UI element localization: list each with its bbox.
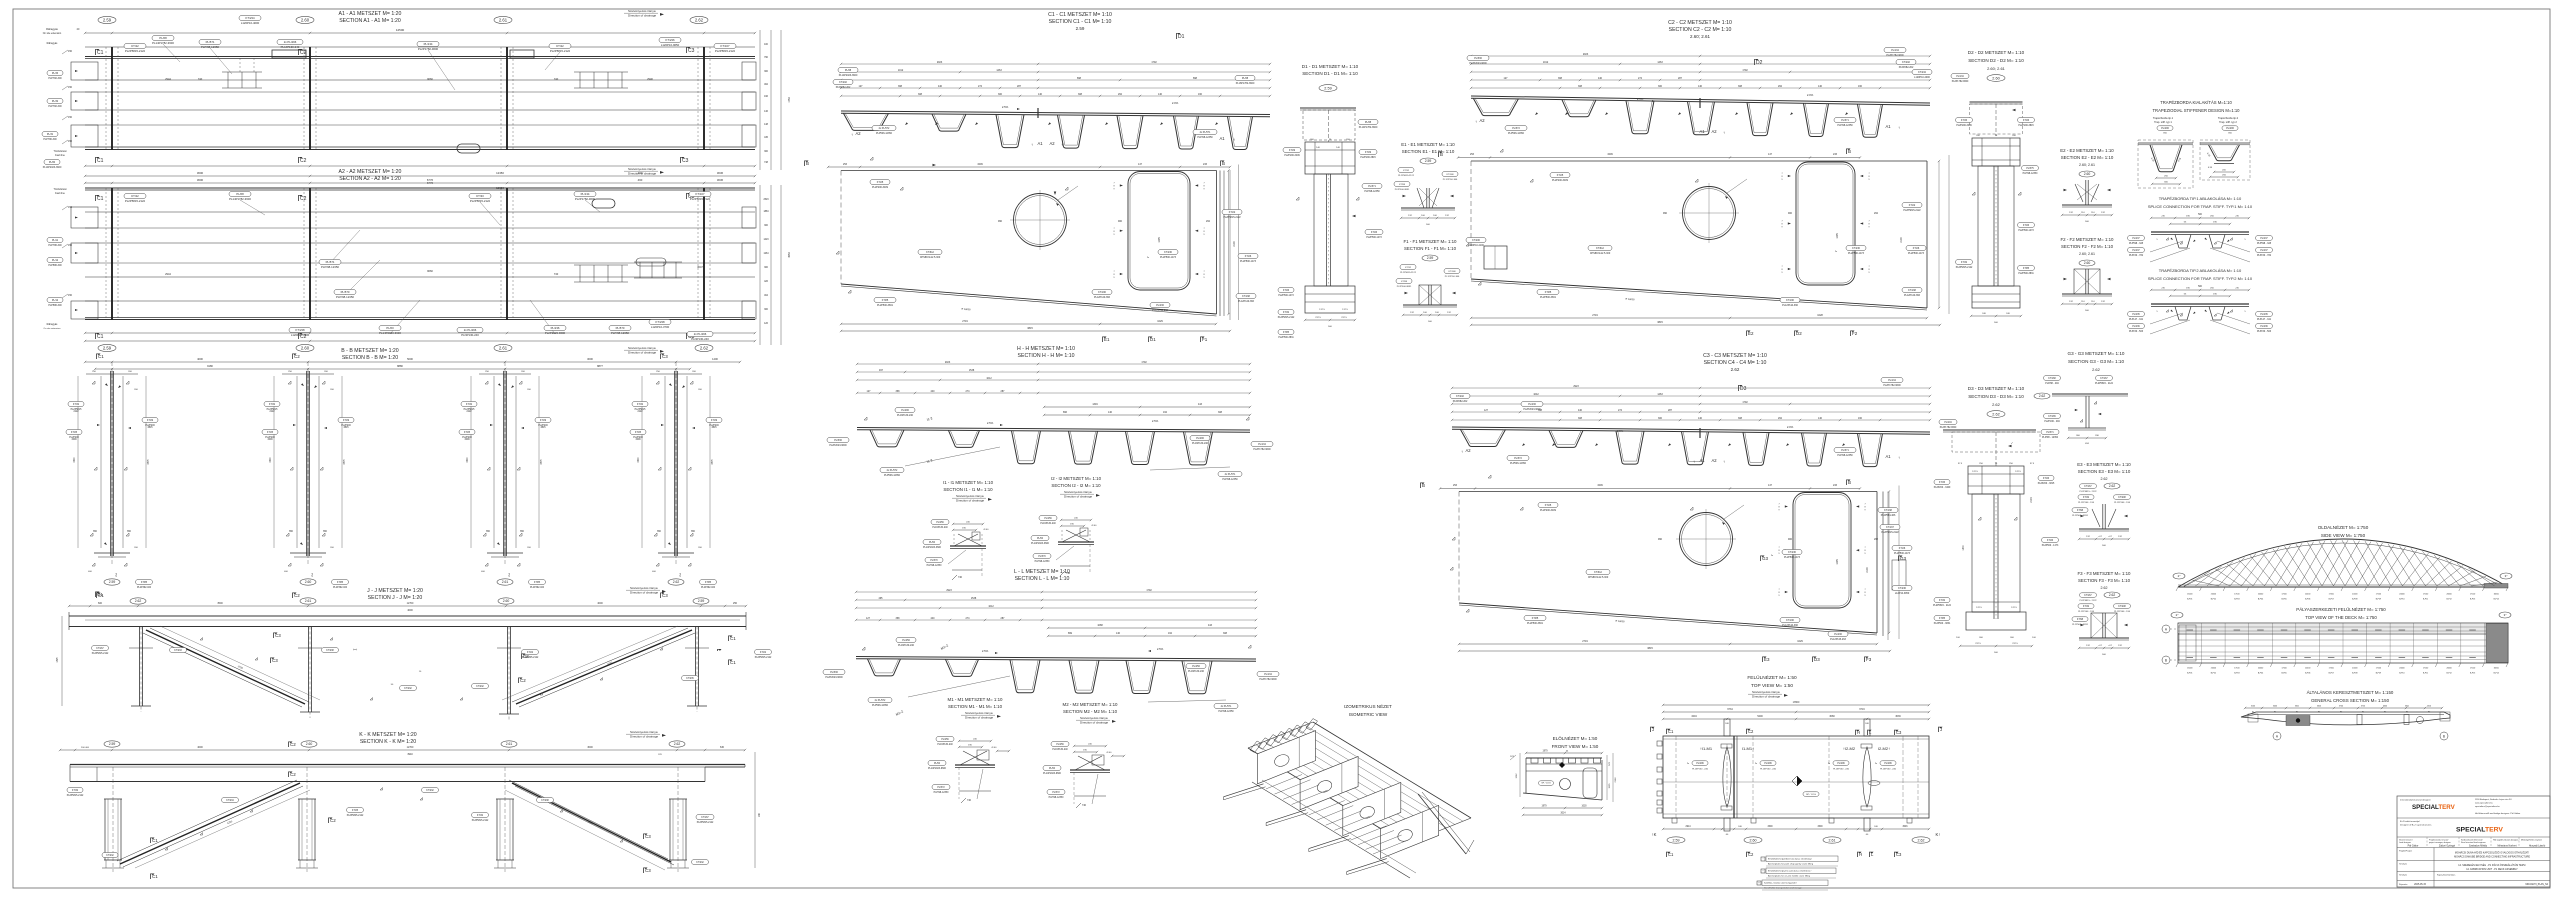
svg-text:B: B [2443,734,2445,738]
svg-text:2.0%: 2.0% [1172,101,1179,105]
svg-text:2923: 2923 [937,61,943,64]
svg-text:Híd segédmunkatárs designer /: Híd segédmunkatárs designer / [2493,839,2520,842]
svg-text:Szelvényezés iránya: Szelvényezés iránya [630,730,658,734]
svg-text:PL/536: PL/536 [830,671,838,674]
svg-text:17100: 17100 [2329,594,2334,596]
svg-text:3'': 3'' [2505,574,2508,578]
svg-text:2923: 2923 [1583,53,1589,56]
svg-text:127: 127 [1484,409,1489,412]
B-B column at x=505 [503,371,505,556]
svg-text:KT/33: KT/33 [476,194,484,198]
svg-text:A2: A2 [1711,129,1717,134]
svg-text:PL12P140-366: PL12P140-366 [1238,300,1255,303]
svg-text:KT/25: KT/25 [877,181,884,184]
svg-text:PLP506-12350: PLP506-12350 [1508,132,1525,135]
general cross section end details [2248,714,2258,722]
svg-text:PL2P500 - 1473: PL2P500 - 1473 [2042,545,2059,547]
svg-text:Trapézborda tip.2: Trapézborda tip.2 [2218,116,2239,120]
A2 leader lines [240,200,265,215]
svg-text:990: 990 [998,220,1003,223]
svg-text:4x PL/571: 4x PL/571 [1221,705,1232,708]
C3 right end details [1882,492,1884,637]
svg-text:SP / COG: SP / COG [1541,783,1551,785]
A1 right margin dimension column [759,30,761,170]
svg-text:PL/571: PL/571 [206,40,215,44]
svg-text:KT/234: KT/234 [1918,71,1926,74]
svg-text:2.60; 2.61: 2.60; 2.61 [2079,163,2095,167]
svg-text:17100: 17100 [2234,594,2239,596]
svg-text:B-P03: B-P03 [2234,599,2239,601]
svg-text:PL16P130 - 240: PL16P130 - 240 [1833,769,1850,771]
svg-text:3621: 3621 [2295,706,2299,708]
felulnezet main rectangle [1663,736,1929,818]
svg-text:368: 368 [1558,77,1563,80]
svg-text:PL/296: PL/296 [2161,127,2169,130]
A1 weld detail cluster left [227,72,229,88]
svg-text:TRAPÉZBORDA TIP.1 ABLAKOLÁSA: TRAPÉZBORDA TIP.1 ABLAKOLÁSA M= 1:10 [2159,196,2242,201]
svg-text:Direction of chainage: Direction of chainage [1080,721,1109,725]
svg-text:2.60: 2.60 [305,580,312,584]
svg-text:PL2P2023-9600: PL2P2023-9600 [829,444,847,447]
C3 bottom dimension rows [1459,643,1877,645]
svg-text:KT/202: KT/202 [1456,395,1464,398]
svg-text:20000: 20000 [2305,594,2310,596]
B-B column at x=112 [110,371,112,556]
svg-text:KT/25: KT/25 [352,810,359,812]
svg-text:KT/26: KT/26 [2043,478,2050,480]
A2 left end stubs [71,207,98,228]
svg-text:308: 308 [918,93,923,96]
K-K column at x=678 [677,767,679,872]
front view dimension top [1526,752,1602,754]
svg-text:3047: 3047 [697,265,703,269]
C3 splice joint marker [1699,428,1701,438]
svg-text:460: 460 [638,178,643,182]
svg-text:1463: 1463 [1657,393,1663,396]
svg-text:I2-M2↑: I2-M2↑ [1878,746,1890,751]
D1 splice detail box [1305,142,1355,174]
svg-text:Ráhagyás: Ráhagyás [47,42,59,45]
svg-text:KT/202: KT/202 [839,81,847,84]
svg-text:2.60: 2.60 [301,346,310,351]
svg-text:PL/256: PL/256 [902,639,910,642]
svg-text:3409: 3409 [1597,484,1603,487]
svg-text:PL12P140-366: PL12P140-366 [1094,296,1111,299]
svg-text:150: 150 [68,294,73,297]
svg-text:B-P06: B-P06 [2305,599,2310,601]
svg-text:PL2P200-3815: PL2P200-3815 [1360,157,1376,159]
svg-text:PL2P500-1473: PL2P500-1473 [1848,252,1865,255]
svg-text:L120P10-4100: L120P10-4100 [291,333,310,337]
svg-text:20000: 20000 [2399,594,2404,596]
K-K column at x=307 [306,767,308,872]
svg-text:C3 - C3 METSZET M= 1:10: C3 - C3 METSZET M= 1:10 [1703,353,1767,359]
arch tick marks and labels [2176,587,2178,591]
svg-text:2x PL/572: 2x PL/572 [875,699,886,702]
svg-text:GENERAL CROSS SECTION M= 1:: GENERAL CROSS SECTION M= 1:150 [2311,698,2390,703]
svg-text:↑: ↑ [1723,130,1725,135]
svg-text:C3: C3 [682,158,689,164]
svg-text:PLP/98-12350: PLP/98-12350 [1218,710,1234,713]
svg-text:PL2P5815-2122: PL2P5815-2122 [1398,175,1415,177]
svg-text:SECTION L - L M= 1:10: SECTION L - L M= 1:10 [1015,576,1070,582]
svg-text:2.60: 2.60 [306,742,313,746]
svg-text:TRAPEZIODIAL STIFFENER DESIGN: TRAPEZIODIAL STIFFENER DESIGN M=1:10 [2153,108,2241,113]
C1 splice joint marker [1037,108,1039,118]
svg-text:2.60; 2.61: 2.60; 2.61 [2079,252,2095,256]
A2 right margin dimension column [759,185,761,345]
svg-text:PL/33: PL/33 [52,72,59,75]
svg-text:tervezőiroda/structural design: tervezőiroda/structural designer [2400,799,2431,802]
svg-text:PLP/98-12350: PLP/98-12350 [1222,478,1238,481]
svg-text:PLP/98-12350: PLP/98-12350 [201,45,219,49]
svg-text:1792: 1792 [1141,361,1147,364]
svg-text:SECTION H - H M= 1:10: SECTION H - H M= 1:10 [1018,353,1075,359]
svg-text:KT/32: KT/32 [72,790,79,792]
D1 callouts [1358,120,1378,125]
svg-text:PL2P200 - 3815: PL2P200 - 3815 [2038,483,2055,485]
svg-text:Anchorplates for paint shop ga: Anchorplates for paint shop gantry crane… [1768,863,1814,866]
svg-text:16000: 16000 [2187,594,2192,596]
svg-text:PL2P2023-9600: PL2P2023-9600 [545,331,566,335]
svg-text:17100: 17100 [2281,594,2286,596]
svg-text:PL2P5815-2122: PL2P5815-2122 [1903,209,1921,212]
svg-text:H - H METSZET M= 1:10: H - H METSZET M= 1:10 [1017,346,1075,352]
svg-text:SP / COG: SP / COG [1806,794,1816,796]
svg-text:6776: 6776 [427,178,434,182]
svg-text:122.5: 122.5 [1972,471,1978,473]
svg-text:KT/85: KT/85 [534,582,541,584]
svg-text:SECTION M2 - M2 M= 1:10: SECTION M2 - M2 M= 1:10 [1063,709,1118,714]
top view vertical grid [2177,623,2179,663]
svg-text:2122: 2122 [637,411,643,413]
C1 deck with trapezoidal ribs [841,111,1270,115]
svg-text:SECTION C2 - C2 M= 1:10: SECTION C2 - C2 M= 1:10 [1669,27,1732,33]
svg-text:KT/32: KT/32 [477,815,484,817]
svg-text:PL/236: PL/236 [2132,326,2140,328]
isometric deck band outline [1313,722,1471,818]
J-J post at x=310 [308,627,310,713]
svg-text:PL/68: PL/68 [1242,77,1249,80]
svg-text:2523: 2523 [763,199,769,201]
K-K column at x=505 [504,767,506,872]
svg-text:PL/60: PL/60 [1037,538,1044,540]
svg-text:4x PL/571: 4x PL/571 [1200,131,1211,134]
svg-text:PL14P2023-3600: PL14P2023-3600 [379,331,401,335]
L-L dimension rows [856,591,1256,593]
A2 weld cluster [579,265,581,282]
C1 right end plate [1219,171,1221,317]
svg-text:600: 600 [98,602,103,605]
svg-text:17100: 17100 [2376,594,2381,596]
svg-text:I2 - I2 METSZET M= 1:10: I2 - I2 METSZET M= 1:10 [1051,476,1102,481]
svg-text:C1 - C1 METSZET M= 1:10: C1 - C1 METSZET M= 1:10 [1048,12,1112,18]
svg-text:150: 150 [68,116,73,119]
svg-text:B-P06: B-P06 [2305,673,2310,675]
svg-text:KT/22: KT/22 [1909,204,1916,207]
svg-text:PL12P140-366: PL12P140-366 [1904,294,1921,297]
svg-text:PL/60: PL/60 [929,542,936,544]
svg-text:PL14P2023-9600: PL14P2023-9600 [1043,773,1062,775]
svg-text:Direction of chainage: Direction of chainage [630,735,659,739]
svg-text:PL/237: PL/237 [2132,250,2140,252]
K-K column at x=113 [112,767,114,872]
svg-text:↑: ↑ [1898,455,1900,460]
svg-text:300: 300 [1658,85,1663,88]
svg-text:162: 162 [1168,632,1173,635]
svg-text:237.5: 237.5 [1975,643,1981,645]
svg-text:PL2P5815-2122: PL2P5815-2122 [755,657,772,659]
svg-text:PL2P2023-9600: PL2P2023-9600 [825,676,843,679]
svg-text:17100: 17100 [2423,668,2428,670]
svg-text:PL2P500-1473: PL2P500-1473 [2018,230,2034,232]
svg-text:↑: ↑ [1061,142,1063,147]
svg-text:KT/26: KT/26 [1283,290,1290,292]
A1 bottom dimension lines [85,165,755,167]
svg-text:440: 440 [931,617,936,620]
svg-text:PL/236: PL/236 [1834,633,1842,636]
svg-text:6716: 6716 [1859,708,1865,711]
svg-text:Direction of chainage: Direction of chainage [628,351,657,355]
svg-text:SECTION A1 - A1 M= 1:20: SECTION A1 - A1 M= 1:20 [339,18,401,24]
svg-text:2.59: 2.59 [1076,26,1085,31]
svg-text:3815: 3815 [540,427,546,429]
svg-text:2944: 2944 [165,77,171,81]
felulnezet bottom dimensions [1663,828,1929,830]
svg-text:899: 899 [1068,632,1073,635]
A2 vertical stiffeners [111,188,113,320]
J-J chainage ellipses [130,598,146,604]
svg-text:SECTION E1 - E1 M= 1:10: SECTION E1 - E1 M= 1:10 [1402,149,1455,154]
svg-text:M1 - M1 METSZET M= 1:10: M1 - M1 METSZET M= 1:10 [948,697,1003,702]
svg-text:2.62: 2.62 [700,346,709,351]
svg-text:308: 308 [1218,411,1223,414]
svg-text:740: 740 [967,799,972,802]
svg-text:2.62: 2.62 [2101,586,2108,590]
svg-text:2.61: 2.61 [502,580,509,584]
svg-text:E1 - E1 METSZET M= 1:10: E1 - E1 METSZET M= 1:10 [1401,142,1455,147]
svg-text:KT/98: KT/98 [2077,619,2084,621]
trapezoid detail typ1 [2138,140,2193,188]
svg-text:2.60; 2.61: 2.60; 2.61 [1690,34,1711,39]
svg-text:1463: 1463 [1657,61,1663,64]
svg-text:KT/167: KT/167 [695,192,704,196]
svg-text:KT/202: KT/202 [1902,61,1910,64]
svg-text:253: 253 [843,163,848,166]
svg-text:D1: D1 [1178,34,1185,40]
svg-text:PLP506-12350: PLP506-12350 [1510,462,1527,465]
svg-text:440: 440 [1598,77,1603,80]
svg-text:PLP506-12350: PLP506-12350 [876,132,893,135]
svg-text:287: 287 [1001,617,1006,620]
svg-text:2.62: 2.62 [1918,838,1925,842]
svg-text:B-P02: B-P02 [2211,599,2216,601]
svg-text:SECTION E3 - E3 M= 1:10: SECTION E3 - E3 M= 1:10 [2078,469,2131,474]
svg-text:PL2P500-3831: PL2P500-3831 [1395,189,1410,191]
felulnezet left edge squares [1657,741,1662,746]
svg-text:2104: 2104 [1900,237,1903,243]
svg-text:www.specialterv.hu: www.specialterv.hu [2475,802,2493,805]
svg-text:SECTION C1 - C1 M= 1:10: SECTION C1 - C1 M= 1:10 [1049,19,1112,25]
svg-text:KT/612: KT/612 [1596,247,1604,250]
svg-text:PL2P5815-2122: PL2P5815-2122 [92,653,109,655]
svg-text:160: 160 [1858,85,1863,88]
svg-text:Zádori Gyöngyi: Zádori Gyöngyi [2439,845,2456,848]
svg-text:PL2P392-400: PL2P392-400 [137,587,152,589]
svg-text:PLP/98-12350: PLP/98-12350 [1197,136,1213,139]
svg-text:233: 233 [1833,153,1838,156]
D1 tall web member [1314,174,1348,286]
title block horizontal dividers [2397,817,2550,819]
svg-text:2.62: 2.62 [2109,484,2116,488]
svg-text:PLP786-300: PLP786-300 [48,244,62,247]
svg-text:KT/29: KT/29 [147,420,154,422]
svg-text:PL16P130-240: PL16P130-240 [898,644,915,647]
front view COG symbol [1559,762,1565,768]
svg-text:287: 287 [1017,85,1022,88]
svg-text:A1: A1 [1699,458,1705,463]
svg-text:1792: 1792 [1151,61,1157,64]
svg-text:C2 - C2 METSZET M= 1:10: C2 - C2 METSZET M= 1:10 [1668,20,1732,26]
svg-text:B-P12: B-P12 [2446,599,2451,601]
svg-text:KT/85: KT/85 [2023,268,2030,270]
svg-text:PL/256: PL/256 [941,739,949,741]
svg-text:TOP VIEW OF THE DECK M= 1:75: TOP VIEW OF THE DECK M= 1:750 [2305,615,2377,620]
D1 top flange [1300,107,1356,109]
svg-text:368: 368 [896,617,901,620]
svg-text:300: 300 [1658,417,1663,420]
A1 weld detail cluster right [579,72,581,88]
A2 girder horizontal plate lines [85,187,755,189]
svg-text:SECTION I1 - I1 M= 1:10: SECTION I1 - I1 M= 1:10 [943,487,993,492]
arch lattice web members [2184,571,2210,586]
svg-text:KT/236: KT/236 [1852,247,1860,250]
svg-text:PL/296: PL/296 [2226,127,2234,130]
svg-text:KT/232: KT/232 [404,688,412,690]
svg-text:ELÖLNÉZET M= 1:50: ELÖLNÉZET M= 1:50 [1553,735,1598,741]
svg-text:KT/167: KT/167 [2084,486,2092,488]
B-B column at x=676 [674,371,676,556]
svg-text:B-P08: B-P08 [2352,673,2357,675]
svg-text:3100: 3100 [2251,706,2255,708]
svg-text:2196: 2196 [1615,777,1617,783]
svg-text:1979: 1979 [1542,751,1548,753]
svg-text:SECTION F1 - F1 M= 1:10: SECTION F1 - F1 M= 1:10 [1404,246,1457,251]
svg-text:PL/204: PL/204 [1944,422,1952,424]
svg-text:KT/26: KT/26 [1245,255,1252,258]
svg-text:740: 740 [554,272,559,276]
svg-text:KT/32: KT/32 [2083,606,2090,608]
svg-text:PL/235: PL/235 [2260,314,2268,316]
svg-text:PLP780-300: PLP780-300 [43,138,57,141]
svg-text:PL16P1782-3600: PL16P1782-3600 [1236,82,1255,85]
svg-text:2.0%: 2.0% [1807,93,1814,97]
C3 deck callouts [1450,394,1470,399]
svg-text:B-P10: B-P10 [2399,599,2404,601]
svg-text:1825: 1825 [57,657,59,663]
svg-text:PL/68: PL/68 [1365,121,1372,124]
A1 right end splice stubs [742,62,756,80]
svg-text:PL16P130-240: PL16P130-240 [1052,749,1068,751]
svg-text:PL/237: PL/237 [2132,238,2140,240]
svg-text:3600: 3600 [2383,706,2387,708]
svg-text:KT/238: KT/238 [541,800,549,802]
svg-text:PL/296: PL/296 [1764,763,1772,765]
svg-text:2.59: 2.59 [1427,256,1434,260]
svg-text:150: 150 [68,86,73,89]
svg-text:PL16P130 - 240: PL16P130 - 240 [1760,769,1777,771]
svg-text:↑: ↑ [1031,142,1033,147]
svg-text:PL16P130-240: PL16P130-240 [1192,442,1209,445]
svg-text:PL/60: PL/60 [1049,768,1056,770]
B-B chainage ellipse 2.60 [300,579,316,585]
top view dash rows [2187,629,2194,631]
svg-text:1535: 1535 [1609,783,1611,789]
svg-text:KT/196: KT/196 [1786,299,1794,302]
svg-text:1400: 1400 [712,357,718,361]
svg-text:B-P12: B-P12 [2446,673,2451,675]
svg-text:127: 127 [866,617,871,620]
svg-text:KT/32: KT/32 [73,404,80,406]
svg-text:KT/98: KT/98 [1399,184,1406,186]
H-H dimension rows [857,363,1250,365]
svg-text:2.5%: 2.5% [987,421,994,425]
svg-text:PLP/98-12350: PLP/98-12350 [1049,797,1064,799]
B-B chainage ellipse 2.62 [668,579,684,585]
svg-text:16000: 16000 [2494,668,2499,670]
svg-text:2.60: 2.60 [301,18,310,23]
A2 chainage ellipses bottom [98,344,116,351]
svg-text:PL2P5815-2122: PL2P5815-2122 [1278,317,1295,319]
felulnezet section cut dashed verticals [1675,736,1677,818]
svg-text:SECTION C4 - C4 M= 1:10: SECTION C4 - C4 M= 1:10 [1704,360,1767,366]
svg-text:C2: C2 [300,196,307,202]
svg-text:D2 - D2 METSZET M= 1:10: D2 - D2 METSZET M= 1:10 [1968,50,2025,55]
L-L callouts [823,670,845,675]
svg-text:OLDALNÉZET M= 1:750: OLDALNÉZET M= 1:750 [2318,524,2369,530]
svg-text:PL14P2023-3600: PL14P2023-3600 [43,166,62,169]
svg-text:16000: 16000 [2494,594,2499,596]
svg-text:Szelvényezés iránya: Szelvényezés iránya [630,586,658,590]
svg-text:3700: 3700 [2339,706,2343,708]
svg-text:PL/32: PL/32 [52,100,59,103]
title block outer frame [2397,796,2550,887]
felulnezet bottom notches [1672,818,1677,823]
svg-text:KT/98: KT/98 [1401,281,1408,283]
svg-text:PLP/98-12350: PLP/98-12350 [1035,561,1050,563]
svg-text:PLP782-300: PLP782-300 [48,105,62,108]
svg-text:3815: 3815 [1647,647,1653,650]
C2 deck with trapezoidal ribs [1471,96,1930,103]
svg-text:3875: 3875 [344,459,346,465]
svg-text:KT/85: KT/85 [705,582,712,584]
svg-text:↑: ↑ [1693,459,1695,464]
svg-text:KT/168: KT/168 [1884,509,1892,512]
svg-text:B-P09: B-P09 [2376,599,2381,601]
svg-text:B-P01: B-P01 [2187,599,2192,601]
svg-text:2.0%: 2.0% [1787,425,1794,429]
svg-text:SECTION D3 - D3 M= 1:10: SECTION D3 - D3 M= 1:10 [1968,394,2024,399]
svg-text:PLP147 - 341: PLP147 - 341 [2129,319,2144,321]
D1 bottom splice [1305,286,1355,313]
svg-text:127: 127 [859,85,864,88]
svg-text:SECTION D1 - D1 M= 1:10: SECTION D1 - D1 M= 1:10 [1302,71,1358,76]
K-K diagonal brace right: col3 top to col4 base [512,783,671,862]
svg-text:20000: 20000 [2446,594,2451,596]
top view left end detail [2179,625,2196,661]
svg-text:Szelvényezés iránya: Szelvényezés iránya [628,167,656,171]
svg-text:PL2P500-1473: PL2P500-1473 [1784,556,1801,559]
